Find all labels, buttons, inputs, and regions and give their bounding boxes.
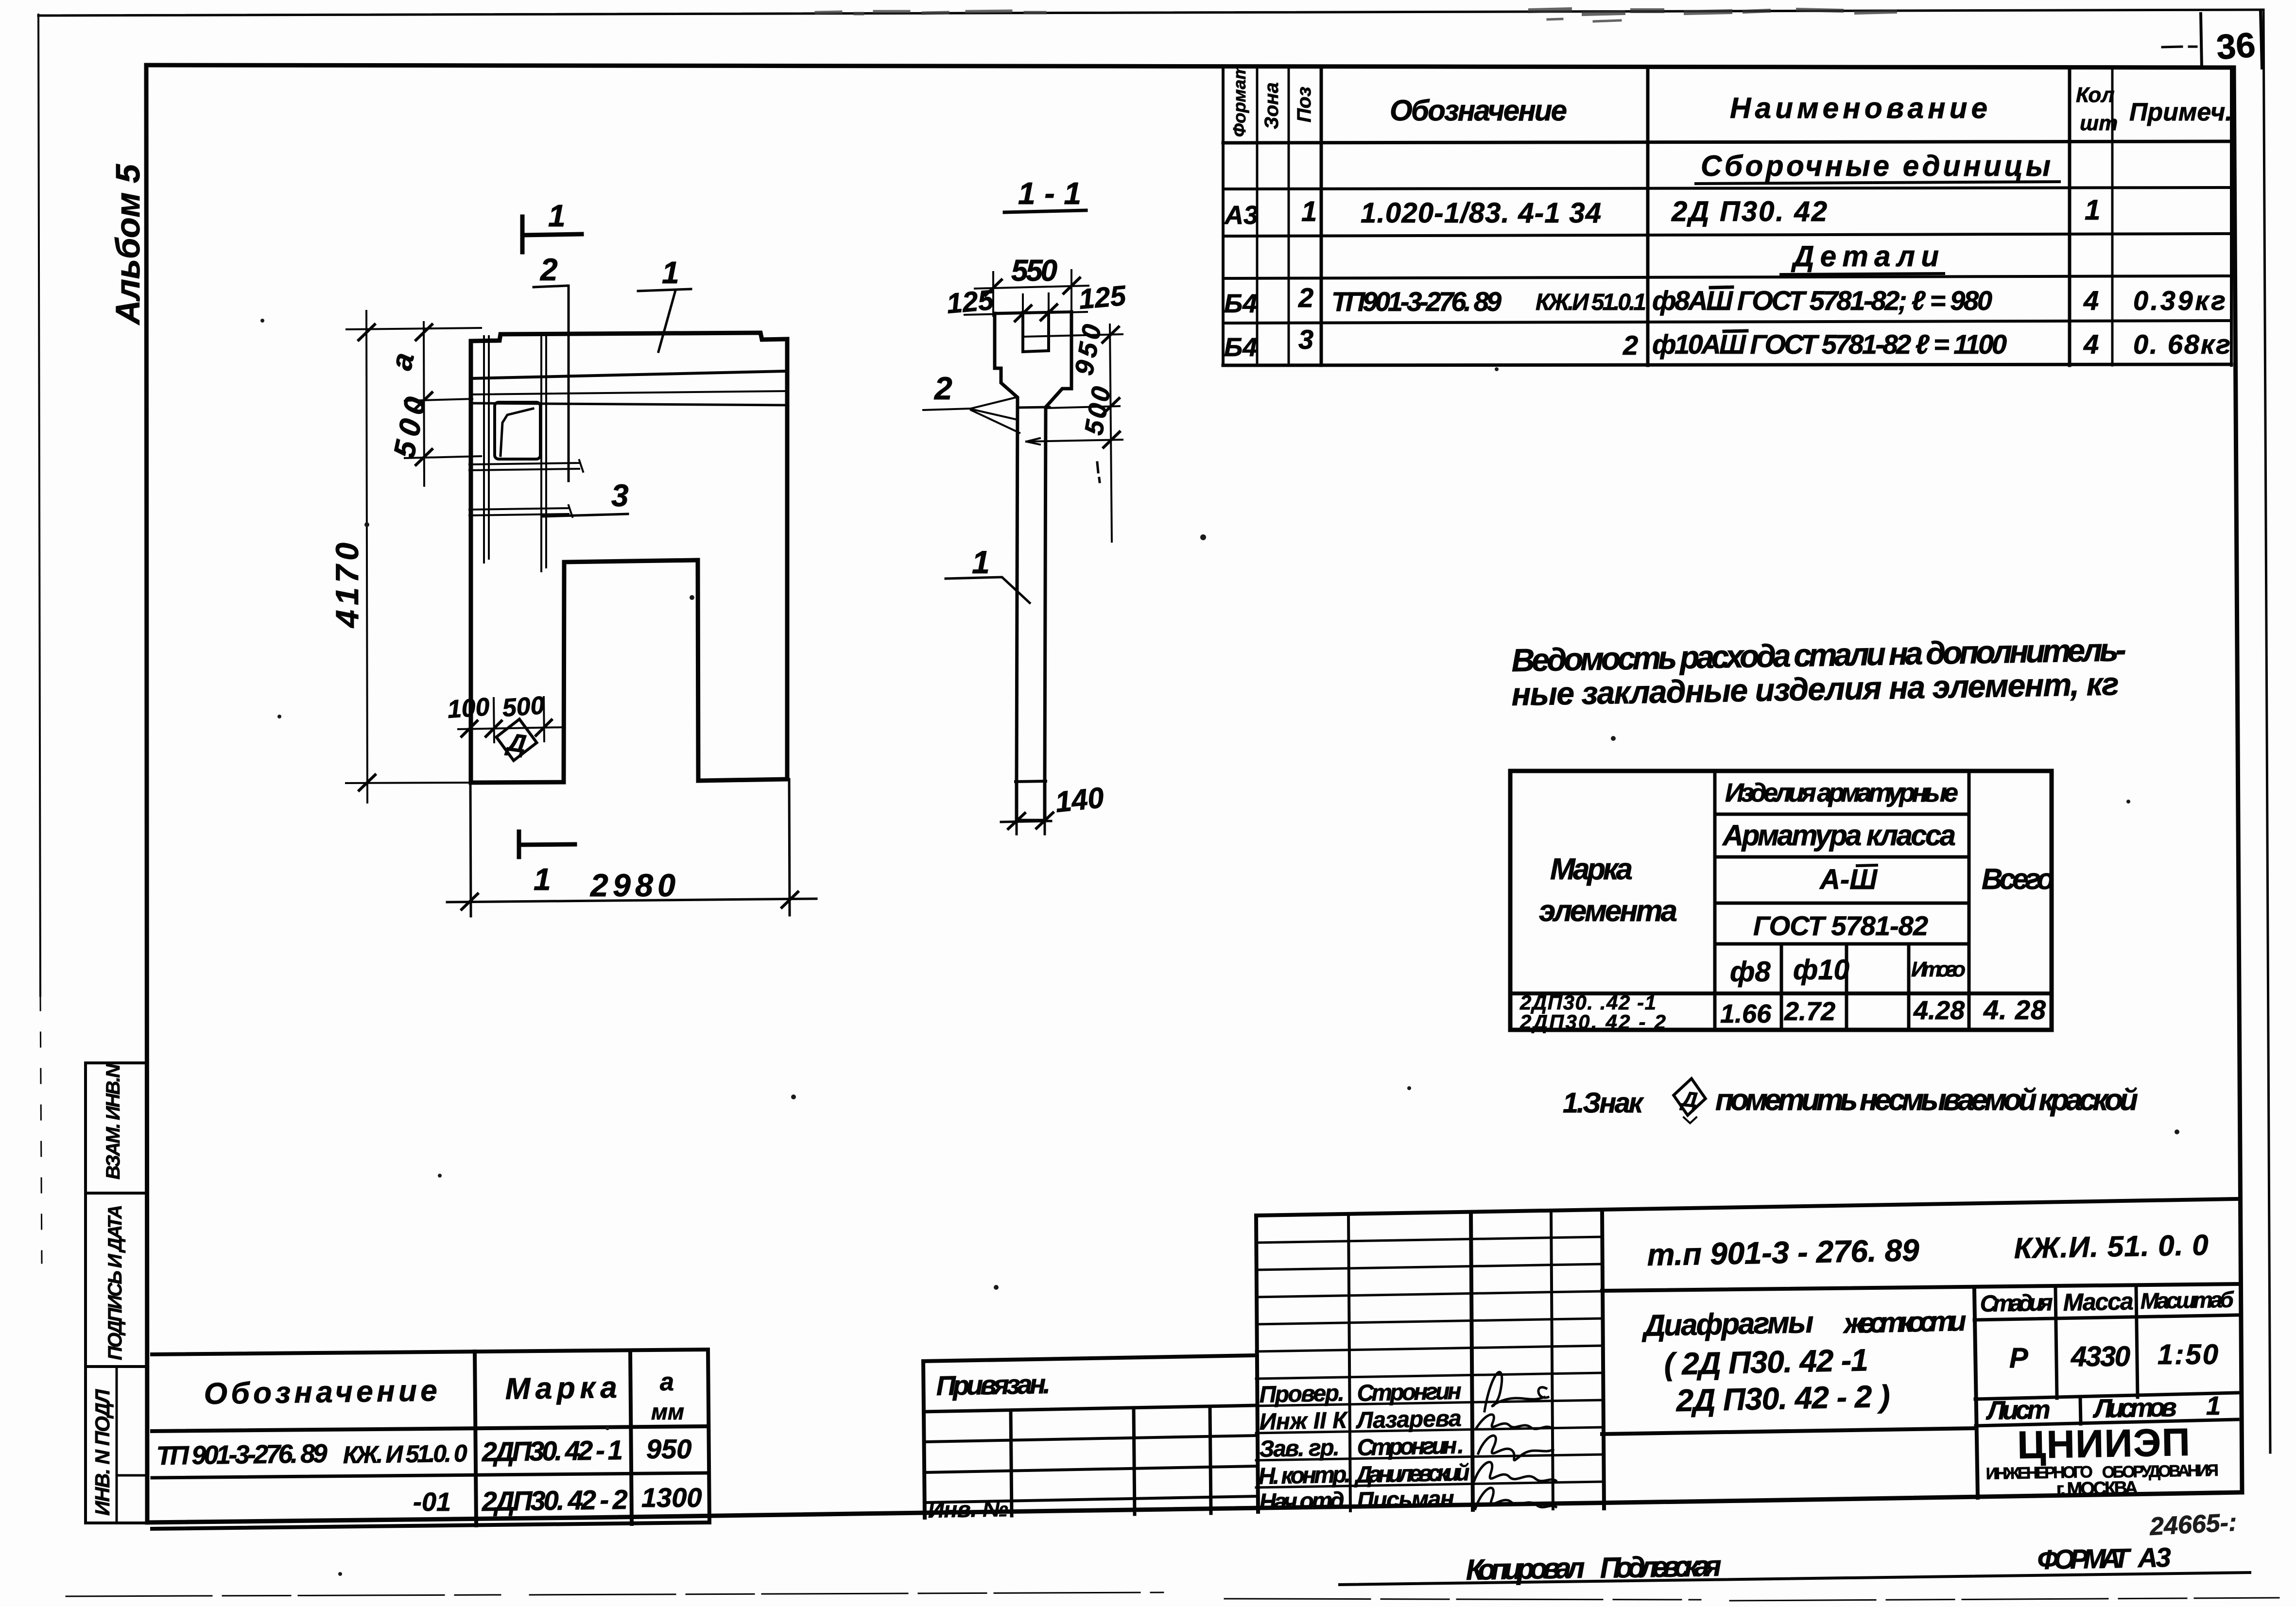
svg-text:1: 1: [662, 255, 679, 290]
svg-text:950: 950: [646, 1434, 691, 1464]
svg-text:А-Ш: А-Ш: [1819, 864, 1878, 895]
svg-text:ВЗАМ. ИНВ.N: ВЗАМ. ИНВ.N: [103, 1063, 124, 1180]
svg-text:ФОРМАТ: ФОРМАТ: [2037, 1543, 2132, 1575]
svg-text:4.28: 4.28: [1913, 996, 1965, 1025]
svg-text:1: 1: [2206, 1391, 2221, 1420]
stray pen marks right of section: [1097, 462, 1100, 482]
svg-text:Поз: Поз: [1294, 86, 1315, 122]
title block: signatures: [1474, 1372, 1556, 1509]
profile left side with chamfer: [995, 313, 1018, 821]
bottom-left marks table: [152, 1350, 709, 1529]
footer joint line: [1016, 781, 1046, 782]
svg-text:550: 550: [1011, 254, 1057, 288]
binding col 3: [1210, 1407, 1211, 1513]
box top Взам: [86, 1061, 147, 1064]
list row bottom: [1976, 1419, 2238, 1426]
specification table top-right: [1223, 67, 2231, 365]
page number box: [2201, 14, 2202, 68]
svg-text:Инв. №: Инв. №: [928, 1496, 1008, 1522]
svg-text:ТП 901-3-276. 89: ТП 901-3-276. 89: [156, 1439, 328, 1470]
title block col signature: [1551, 1211, 1553, 1509]
main frame bottom: [147, 1492, 2242, 1522]
svg-text:КЖ. И 51.0. 0: КЖ. И 51.0. 0: [343, 1439, 467, 1469]
svg-text:Примеч.: Примеч.: [2129, 98, 2232, 126]
svg-text:1: 1: [534, 862, 551, 897]
marks table row line: [152, 1473, 708, 1478]
outer thin border left: [38, 15, 40, 996]
svg-text:2: 2: [540, 252, 558, 287]
svg-text:Формат: Формат: [1229, 64, 1249, 137]
stem bottom edge: [1017, 819, 1045, 822]
svg-text:24665-:: 24665-:: [2149, 1508, 2238, 1541]
svg-text:Д: Д: [1679, 1087, 1699, 1112]
spec col Обозначение/Наименование: [1646, 67, 1650, 365]
svg-text:Данилевский: Данилевский: [1353, 1460, 1470, 1488]
binding header bottom: [924, 1405, 1256, 1412]
svg-text:1: 1: [2085, 194, 2100, 226]
svg-text:Р: Р: [2009, 1342, 2028, 1374]
svg-text:Инж II К: Инж II К: [1259, 1407, 1349, 1435]
section profile: [995, 312, 1071, 821]
waist joint line: [1018, 407, 1050, 408]
spec row line 1: [1223, 188, 2231, 189]
svg-text:ЦНИИЭП: ЦНИИЭП: [2017, 1420, 2190, 1467]
svg-text:4: 4: [2083, 285, 2099, 316]
spec row: position 1 assembly: [1224, 194, 2100, 230]
rebar pair right: [541, 335, 546, 571]
svg-text:2.72: 2.72: [1784, 997, 1835, 1026]
panel joint line: [471, 371, 786, 378]
svg-text:Лист: Лист: [1985, 1395, 2051, 1425]
svg-text:Стронгин: Стронгин: [1357, 1379, 1462, 1406]
binding col 1: [1011, 1410, 1012, 1516]
steel table sub col f8: [1780, 944, 1783, 1030]
svg-text:Марка: Марка: [505, 1371, 617, 1406]
spec row line 2: [1223, 234, 2231, 236]
svg-text:КЖ.И. 51. 0. 0: КЖ.И. 51. 0. 0: [2014, 1229, 2209, 1265]
svg-text:А3: А3: [2137, 1542, 2171, 1573]
svg-text:ТП901-3-276. 89: ТП901-3-276. 89: [1331, 286, 1502, 317]
svg-text:Итого: Итого: [1911, 957, 1966, 981]
title block left edge: [1256, 1215, 1258, 1512]
spec col Поз: [1320, 67, 1323, 365]
svg-text:пометить несмываемой краской: пометить несмываемой краской: [1715, 1083, 2138, 1117]
box inner vertical: [116, 1367, 118, 1523]
svg-text:элемента: элемента: [1539, 894, 1677, 928]
binding row 3: [924, 1466, 1256, 1472]
spec row line 3: [1223, 276, 2231, 278]
spec row: position 2 detail: [1224, 282, 2226, 318]
dimension 2980: [447, 779, 816, 916]
panel double joint line lower: [471, 403, 786, 405]
section mark 1 bottom: [519, 832, 575, 857]
svg-text:4: 4: [2083, 329, 2099, 359]
binding row 2: [924, 1436, 1256, 1442]
svg-text:2: 2: [1623, 330, 1638, 360]
svg-text:2: 2: [1298, 282, 1313, 313]
spec header bottom: [1223, 141, 2231, 143]
svg-text:Листов: Листов: [2092, 1393, 2177, 1423]
svg-text:950: 950: [1070, 322, 1107, 377]
svg-text:ПОДПИСЬ И ДАТА: ПОДПИСЬ И ДАТА: [104, 1205, 126, 1360]
title block col role: [1348, 1214, 1350, 1511]
list col divider: [2080, 1398, 2081, 1424]
steel table header row 4: [1715, 942, 1969, 946]
steel table outer: [1510, 771, 2052, 1030]
stadia header bottom: [1974, 1315, 2238, 1320]
svg-text:Лазарева: Лазарева: [1355, 1406, 1462, 1434]
title block col date: [1602, 1210, 1604, 1508]
binding col 2: [1134, 1408, 1135, 1514]
svg-text:2Д П30. 42: 2Д П30. 42: [1671, 196, 1827, 227]
svg-text:2ДП30. 42 - 2: 2ДП30. 42 - 2: [1519, 1010, 1666, 1033]
outer thin border top: [38, 10, 2262, 16]
svg-text:4. 28: 4. 28: [1983, 994, 2046, 1025]
outer thin border bottom: [66, 1592, 2279, 1601]
title block: role labels: [1258, 1380, 1351, 1515]
svg-text:1: 1: [548, 198, 566, 233]
svg-text:Обозначение: Обозначение: [204, 1374, 437, 1411]
steel table texts: [1519, 778, 2054, 1033]
profile top edge: [995, 312, 1071, 313]
svg-text:100: 100: [447, 693, 491, 724]
svg-text:жесткости: жесткости: [1842, 1305, 1967, 1339]
profile right side with chamfer: [1045, 312, 1071, 821]
title block: [1256, 1199, 2238, 1512]
svg-text:ф8: ф8: [1730, 956, 1771, 988]
dimension 100/500 small: [458, 697, 564, 742]
spec table outer: [1222, 67, 1225, 365]
title block top edge: [1256, 1199, 2238, 1215]
box column left edge: [84, 1063, 87, 1523]
dimension a: [405, 322, 472, 486]
svg-text:г. МОСКВА: г. МОСКВА: [2056, 1478, 2138, 1500]
svg-text:4330: 4330: [2071, 1341, 2130, 1372]
dimension 4170: [346, 311, 481, 803]
svg-text:ф8АШ ГОСТ 5781-82; ℓ = 980: ф8АШ ГОСТ 5781-82; ℓ = 980: [1652, 285, 1992, 316]
marks table header bottom: [152, 1426, 708, 1431]
marks table bottom: [152, 1522, 708, 1529]
svg-text:Провер.: Провер.: [1259, 1380, 1345, 1408]
steel table header row 2: [1715, 855, 1969, 859]
svg-text:2ДП30. 42 - 1: 2ДП30. 42 - 1: [481, 1435, 623, 1467]
dimension 550: [975, 270, 1088, 316]
svg-text:т.п 901-3 - 276. 89: т.п 901-3 - 276. 89: [1647, 1232, 1920, 1272]
svg-text:0. 68кг: 0. 68кг: [2133, 329, 2230, 359]
spec row line 4: [1223, 321, 2231, 323]
svg-text:-01: -01: [413, 1487, 451, 1517]
svg-text:ИНВ. N ПОДЛ: ИНВ. N ПОДЛ: [91, 1389, 114, 1516]
main frame top: [146, 65, 2234, 68]
svg-text:Письман: Письман: [1357, 1486, 1454, 1514]
svg-text:Марка: Марка: [1550, 853, 1633, 886]
svg-text:0.39кг: 0.39кг: [2133, 285, 2226, 316]
svg-text:Привязан.: Привязан.: [936, 1368, 1051, 1401]
svg-text:3: 3: [1298, 324, 1313, 355]
svg-text:140: 140: [1053, 781, 1105, 819]
svg-text:1: 1: [1301, 196, 1317, 227]
main frame right: [2234, 68, 2242, 1492]
svg-text:ф10: ф10: [1793, 954, 1849, 986]
svg-text:2Д П30. 42 - 2 ): 2Д П30. 42 - 2 ): [1675, 1379, 1890, 1418]
svg-text:мм: мм: [651, 1399, 684, 1424]
title block col name: [1471, 1212, 1473, 1510]
designation cell bottom: [1602, 1284, 2238, 1291]
svg-text:Стадия: Стадия: [1980, 1290, 2053, 1317]
svg-text:125: 125: [945, 284, 995, 320]
panel outline: [471, 333, 787, 783]
steel table sub col f10: [1845, 944, 1848, 1030]
panel double joint line upper: [471, 391, 786, 394]
binding table: [923, 1355, 1256, 1518]
svg-text:шт: шт: [2080, 111, 2118, 135]
marks table right edge: [708, 1350, 709, 1522]
svg-text:36: 36: [2215, 26, 2257, 67]
svg-text:Стронгин .: Стронгин .: [1357, 1433, 1464, 1461]
stamp col divider: [1974, 1290, 1978, 1498]
svg-text:ф10АШ ГОСТ 5781-82 ℓ = 1100: ф10АШ ГОСТ 5781-82 ℓ = 1100: [1652, 329, 2007, 359]
svg-text:1: 1: [972, 544, 990, 580]
svg-text:Н. контр.: Н. контр.: [1258, 1462, 1351, 1489]
spec header texts: [1229, 64, 2232, 137]
svg-text:4170: 4170: [329, 543, 365, 629]
marks table top: [152, 1350, 708, 1354]
svg-text:Всего: Всего: [1982, 863, 2054, 895]
top edge smudge marks: [1531, 10, 1895, 21]
embedded bar upper pair: [469, 460, 583, 472]
svg-text:Д: Д: [504, 728, 528, 758]
svg-text:500: 500: [387, 394, 433, 461]
svg-text:Зона: Зона: [1261, 82, 1282, 129]
spec col Наименование/Кол: [2068, 68, 2072, 365]
spec col Кол/Примеч: [2111, 68, 2114, 365]
svg-text:2ДП30. 42 - 2: 2ДП30. 42 - 2: [481, 1484, 628, 1517]
svg-text:Б4: Б4: [1224, 289, 1257, 318]
svg-text:Масштаб: Масштаб: [2140, 1287, 2234, 1314]
svg-text:ГОСТ 5781-82: ГОСТ 5781-82: [1753, 910, 1928, 941]
steel table data row top: [1510, 992, 2052, 995]
svg-text:500: 500: [501, 691, 546, 722]
steel table: [1510, 771, 2052, 1030]
steel table sub col blank: [1907, 944, 1911, 1030]
dash before page number: [2162, 47, 2196, 47]
svg-text:2980: 2980: [589, 867, 675, 903]
svg-text:Арматура класса: Арматура класса: [1722, 819, 1956, 852]
binding table left: [923, 1361, 925, 1518]
svg-text:Изделия арматурные: Изделия арматурные: [1725, 778, 1958, 807]
dimension 140: [1001, 813, 1053, 834]
svg-text:А3: А3: [1224, 201, 1258, 230]
scattered scan specks: [260, 319, 2179, 1576]
stadia cols: [2055, 1289, 2057, 1398]
dimension 500 upper: [405, 449, 481, 465]
title block: names: [1353, 1379, 1470, 1514]
left margin attachment boxes: [86, 1063, 147, 1523]
marks table col а: [630, 1351, 632, 1524]
box divider 2: [86, 1365, 147, 1368]
svg-text:1.020-1/83. 4-1 34: 1.020-1/83. 4-1 34: [1361, 197, 1601, 229]
svg-text:( 2Д П30. 42 -1: ( 2Д П30. 42 -1: [1664, 1342, 1868, 1382]
main frame left: [146, 65, 147, 1522]
steel table col Всего: [1968, 771, 1971, 1030]
svg-text:Б4: Б4: [1224, 333, 1257, 362]
svg-text:125: 125: [1077, 280, 1127, 315]
stirrup square: [495, 402, 540, 459]
name cell bottom: [1602, 1428, 1974, 1434]
stirrup hook: [501, 409, 533, 456]
svg-text:Зав. гр.: Зав. гр.: [1259, 1435, 1340, 1462]
outer thin border right: [2263, 10, 2270, 1453]
values row bottom: [1975, 1393, 2238, 1399]
embedded bar lower pair: [469, 505, 572, 517]
svg-text:1:50: 1:50: [2158, 1339, 2218, 1370]
svg-text:Обозначение: Обозначение: [1390, 94, 1567, 127]
svg-text:Сборочные единицы: Сборочные единицы: [1701, 150, 2051, 182]
svg-text:а: а: [660, 1368, 674, 1396]
marks table col Марка: [475, 1351, 476, 1525]
top center smudge group left: [816, 11, 1045, 14]
elevation view of diaphragm panel: [469, 333, 787, 783]
svg-text:Наименование: Наименование: [1730, 92, 1987, 124]
svg-text:1-1: 1-1: [1018, 176, 1081, 211]
svg-text:2: 2: [933, 370, 952, 406]
box divider 1: [86, 1192, 147, 1195]
svg-text:3: 3: [611, 478, 629, 513]
quality mark diamond: [493, 717, 539, 764]
spec col Зона: [1288, 67, 1290, 365]
title block row lines left section: [1256, 1237, 1602, 1243]
copied underline: [1340, 1573, 2250, 1585]
dimension 125 pair: [965, 293, 1087, 321]
svg-text:а: а: [384, 350, 421, 373]
binding table top: [923, 1355, 1256, 1361]
steel table col Марка: [1713, 771, 1717, 1030]
svg-text:КЖ.И 51.0.1: КЖ.И 51.0.1: [1536, 290, 1646, 315]
svg-text:Детали: Детали: [1791, 240, 1939, 273]
box bottom: [86, 1522, 147, 1524]
svg-text:Альбом 5: Альбом 5: [109, 164, 147, 325]
svg-text:Кол: Кол: [2076, 83, 2115, 107]
svg-text:1.66: 1.66: [1720, 999, 1772, 1028]
spec row: position 3 detail: [1224, 324, 2230, 362]
rebar pair left: [484, 336, 489, 563]
svg-text:1.Знак: 1.Знак: [1563, 1087, 1644, 1119]
steel table header row 1: [1715, 813, 1969, 816]
dimension 950/500 right: [1025, 325, 1122, 542]
svg-text:Нач.отд: Нач.отд: [1259, 1487, 1345, 1515]
box inner horizontal: [117, 1474, 147, 1477]
section mark 1 top: [522, 217, 582, 252]
svg-text:Диафрагмы: Диафрагмы: [1641, 1306, 1814, 1343]
spec col Формат: [1256, 67, 1259, 365]
profile top slot: [1023, 312, 1049, 352]
binding row 4: [925, 1496, 1256, 1503]
svg-text:Масса: Масса: [2063, 1287, 2134, 1316]
svg-text:1300: 1300: [641, 1482, 702, 1513]
steel table header row 3: [1715, 902, 1969, 905]
